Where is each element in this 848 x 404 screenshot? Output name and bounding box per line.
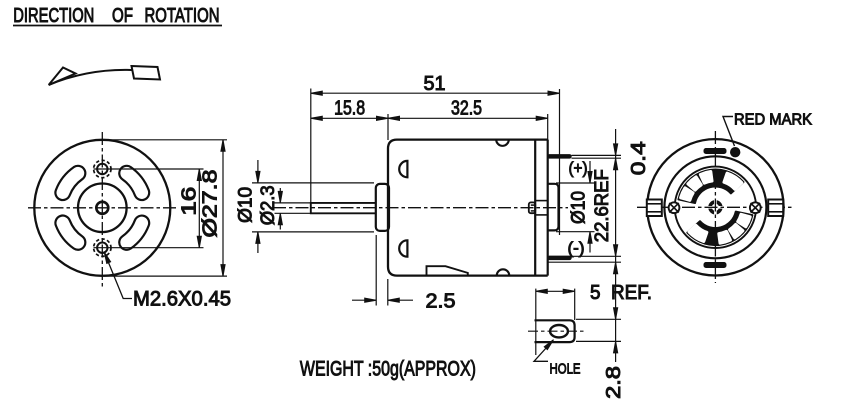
crimp notch bottom bbox=[497, 269, 510, 275]
vent hole top (side) bbox=[399, 161, 407, 177]
svg-text:16: 16 bbox=[179, 187, 201, 216]
svg-text:M2.6X0.45: M2.6X0.45 bbox=[133, 288, 231, 311]
vent hole bottom (side) bbox=[399, 240, 407, 256]
terminal detail bracket bbox=[535, 320, 575, 342]
rear left tab bbox=[647, 200, 662, 217]
rear bearing stub bbox=[529, 202, 535, 213]
terminal tab minus bbox=[548, 256, 572, 260]
svg-text:WEIGHT :50g(APPROX): WEIGHT :50g(APPROX) bbox=[300, 358, 476, 381]
end cap edge bbox=[547, 140, 549, 276]
rotor black band top bbox=[678, 170, 743, 203]
red mark leader bbox=[723, 117, 735, 147]
end cap boss bbox=[548, 184, 559, 231]
dim 51 bbox=[311, 89, 560, 236]
svg-text:RED MARK: RED MARK bbox=[734, 111, 812, 128]
svg-text:32.5: 32.5 bbox=[451, 98, 482, 120]
svg-text:ROTATION: ROTATION bbox=[145, 5, 220, 27]
dim 15.8 and 32.5 bbox=[311, 114, 548, 140]
front bearing boss bbox=[376, 184, 389, 231]
rear vertical centerline bbox=[714, 131, 716, 283]
svg-text:Ø27.8: Ø27.8 bbox=[200, 170, 222, 238]
svg-text:2.8: 2.8 bbox=[603, 366, 625, 399]
rear outer circle bbox=[647, 139, 783, 275]
dim 2.5 bbox=[352, 235, 413, 306]
rear horizontal centerline bbox=[637, 206, 793, 208]
dim 22.6REF arrow bbox=[614, 245, 618, 256]
dimension 16 extension+line bbox=[94, 169, 204, 248]
svg-text:51: 51 bbox=[424, 73, 446, 95]
svg-text:Ø10: Ø10 bbox=[569, 191, 590, 224]
svg-text:(-): (-) bbox=[568, 239, 585, 258]
rear screw boss left bbox=[669, 202, 680, 213]
svg-text:HOLE: HOLE bbox=[550, 360, 581, 377]
brush slot bar bottom bbox=[704, 263, 726, 268]
leader M2.6X0.45 bbox=[105, 255, 132, 299]
screw hole top bbox=[97, 164, 107, 174]
svg-text:Ø2.3: Ø2.3 bbox=[258, 185, 279, 225]
red mark dot bbox=[731, 148, 740, 157]
front view outer circle bbox=[34, 140, 170, 276]
can crimp edge bbox=[534, 140, 536, 276]
terminal tab plus bbox=[548, 155, 572, 159]
rotor white wedges bbox=[700, 172, 711, 183]
detail centerline bbox=[528, 330, 585, 332]
HOLE leader bbox=[534, 342, 552, 362]
svg-text:OF: OF bbox=[112, 5, 133, 27]
svg-text:15.8: 15.8 bbox=[334, 98, 365, 120]
front horizontal centerline bbox=[28, 207, 177, 209]
svg-text:2.5: 2.5 bbox=[426, 290, 456, 312]
svg-text:0.4: 0.4 bbox=[628, 141, 650, 175]
rear screw boss right bbox=[750, 202, 761, 213]
screw hole bottom bbox=[97, 243, 107, 253]
rear inner circle bbox=[664, 156, 766, 258]
bracket extension lines bbox=[576, 319, 621, 341]
rotation direction arrow bbox=[49, 70, 160, 85]
svg-text:Ø10: Ø10 bbox=[235, 187, 256, 223]
svg-text:DIRECTION: DIRECTION bbox=[13, 5, 94, 27]
rear right tab bbox=[768, 200, 783, 217]
front vertical centerline bbox=[101, 132, 103, 287]
detail width dim bbox=[536, 289, 575, 355]
crimp notch top bbox=[496, 140, 509, 146]
brush slot bar top bbox=[704, 149, 726, 154]
dimension dia 27.8 extension+line bbox=[104, 140, 227, 276]
svg-text:(+): (+) bbox=[569, 158, 588, 177]
dim dia 2.3 bbox=[275, 188, 311, 230]
front vent slots bbox=[119, 166, 149, 200]
shaft bbox=[311, 203, 376, 213]
rear rotor outline circle bbox=[675, 167, 756, 248]
terminal extension lines bbox=[548, 155, 621, 262]
terminal hole bbox=[550, 325, 568, 337]
dim dia 10 left bbox=[252, 160, 374, 253]
rear center hole bbox=[710, 202, 721, 213]
bottom mounting tab bbox=[427, 266, 468, 275]
front view inner circle bbox=[78, 184, 127, 233]
svg-text:22.6REF: 22.6REF bbox=[592, 169, 613, 242]
rotor black band bottom bbox=[687, 212, 752, 245]
front shaft center hole bbox=[96, 202, 108, 214]
master dim line right bbox=[615, 129, 617, 362]
shaft centerline bbox=[273, 207, 568, 209]
svg-text:5 REF.: 5 REF. bbox=[590, 282, 652, 304]
motor can body bbox=[388, 140, 548, 276]
dim 2.8 arrow bbox=[614, 341, 618, 353]
dim dia 10 right bbox=[556, 161, 595, 253]
dim 5REF arrows bbox=[614, 262, 618, 274]
dim 0.4 arrows bbox=[614, 144, 618, 156]
